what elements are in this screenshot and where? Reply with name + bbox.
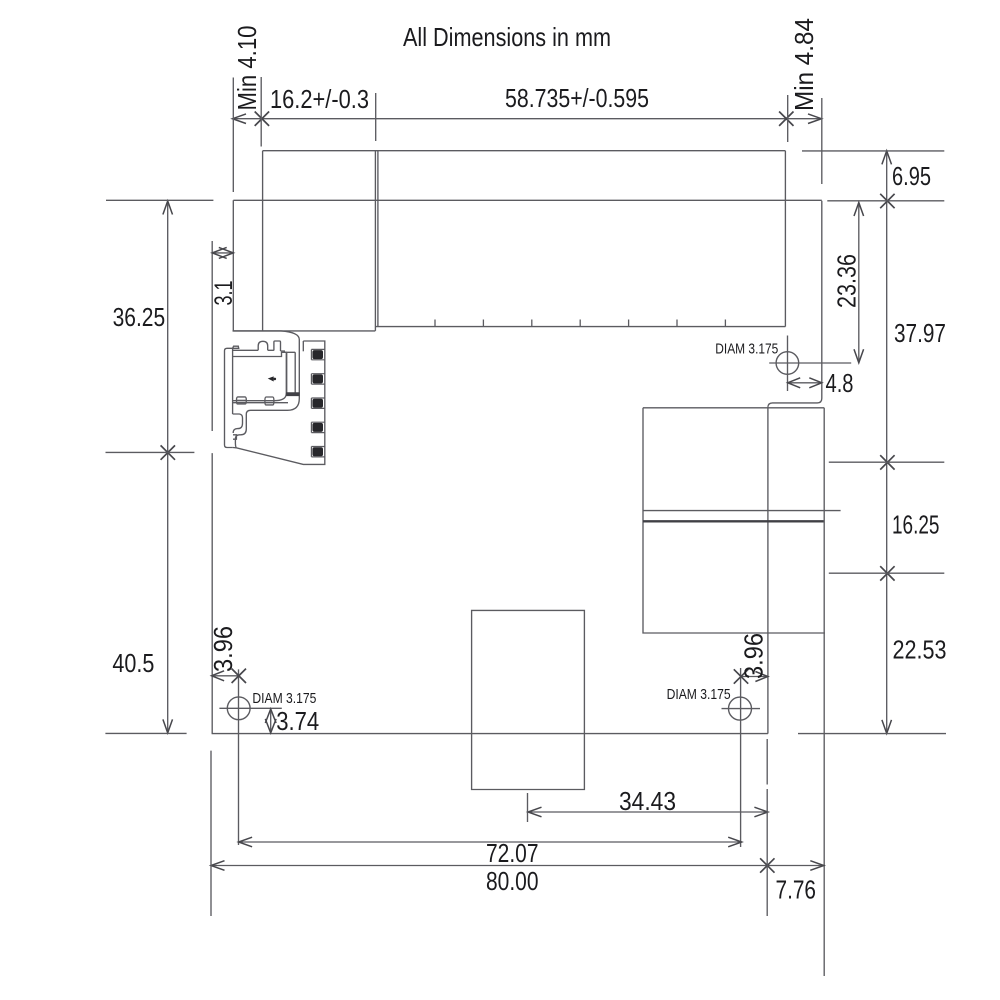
dim right X at 573.4 — [880, 566, 894, 580]
hole bottom right h centerline — [722, 708, 761, 710]
connector shell plate — [225, 348, 233, 447]
component right box outline — [643, 408, 825, 633]
hole top right h centerline — [769, 362, 851, 364]
svg-text:3.1: 3.1 — [210, 281, 238, 306]
connector bold bar — [287, 393, 299, 396]
dim 80.00 line — [211, 865, 824, 867]
svg-text:DIAM 3.175: DIAM 3.175 — [715, 342, 778, 358]
dim right vertical line — [886, 151, 888, 734]
dim 34.43 left arrow — [528, 807, 542, 817]
dim 3.74 bottom arrow — [265, 719, 276, 733]
svg-text:16.2+/-0.3: 16.2+/-0.3 — [270, 84, 369, 114]
ext line y=733.4 left — [105, 732, 186, 734]
board right edge lower — [767, 407, 769, 733]
connector hook inner — [233, 414, 243, 433]
svg-text:Min 4.10: Min 4.10 — [232, 26, 262, 111]
ext line y=200.8 right — [827, 200, 944, 202]
svg-text:3.74: 3.74 — [276, 706, 319, 736]
svg-text:All Dimensions in mm: All Dimensions in mm — [403, 22, 611, 52]
hole bottom right circle — [729, 697, 752, 720]
svg-text:22.53: 22.53 — [893, 635, 947, 665]
hole bottom left h centerline — [219, 707, 281, 709]
dim Min 4.84 right arrow — [808, 114, 822, 124]
ext line x=261.2 — [260, 77, 262, 147]
ext line y=452.4 left — [106, 451, 195, 453]
svg-text:3.96: 3.96 — [208, 626, 238, 672]
dim 72.07 right arrow — [728, 837, 742, 847]
svg-text:Min 4.84: Min 4.84 — [789, 18, 819, 111]
connector cavity outline — [233, 352, 287, 400]
board bottom edge — [212, 733, 768, 735]
svg-text:36.25: 36.25 — [113, 302, 166, 332]
ext line x=767.2 bottom b — [766, 789, 768, 916]
dim chain line top — [233, 118, 822, 120]
component right box thin internal line — [643, 510, 841, 512]
ext line y=733.6 right — [798, 733, 946, 735]
dim right X at 462.4 — [880, 455, 894, 469]
dim 6.95 top arrow — [882, 151, 892, 165]
svg-text:37.97: 37.97 — [894, 318, 946, 348]
ext line y=150.9 right — [802, 150, 944, 152]
ext line x=767.2 bottom a — [766, 739, 768, 785]
svg-text:DIAM 3.175: DIAM 3.175 — [667, 687, 731, 703]
connector cavity inner wall — [287, 352, 296, 393]
ext line y=573.2 right — [829, 572, 945, 574]
hole bottom right v centerline — [740, 668, 742, 847]
svg-text:4.8: 4.8 — [826, 368, 854, 398]
board top edge — [233, 199, 822, 201]
connector housing bump — [258, 341, 268, 350]
dim 3.74 top arrow — [265, 709, 276, 723]
connector latch mark — [269, 377, 273, 381]
dim 36.25 top arrow — [163, 201, 173, 215]
ext line x=375.7 — [375, 93, 377, 141]
dim Min 4.10 left arrow — [233, 114, 247, 124]
connector housing bottom edge — [233, 402, 288, 404]
svg-text:3.96: 3.96 — [739, 633, 769, 679]
dim 4.8 left arrow — [788, 378, 801, 388]
connector foot left — [237, 397, 247, 404]
ext line x=787.7 — [787, 95, 789, 142]
dim 4.8 line — [788, 382, 822, 384]
connector housing tab2 — [274, 341, 281, 351]
dim 3.1 left arrow — [212, 247, 227, 258]
module divider line b — [377, 151, 379, 327]
dim 23.36 line — [858, 203, 860, 363]
connector outer profile — [233, 331, 325, 465]
svg-text:23.36: 23.36 — [832, 254, 862, 308]
dim 80.00 left arrow — [211, 861, 225, 871]
svg-text:40.5: 40.5 — [112, 648, 154, 678]
ext line x=821.8 top — [821, 98, 823, 184]
dim 3.96 right arrow — [755, 672, 768, 682]
dim 34.43 right arrow — [754, 807, 768, 817]
dim left X at 452.6 — [161, 445, 175, 459]
dim tick X at 786.3 — [779, 112, 793, 126]
dim 4.8 right arrow — [809, 378, 822, 388]
connector latch mark dot — [274, 378, 277, 381]
ext line x=527.5 bottom — [527, 793, 529, 822]
dim 3.1 line — [212, 252, 233, 254]
dim 72.07 line — [239, 841, 742, 843]
module pin ticks — [434, 320, 436, 327]
module left edge — [262, 151, 264, 331]
svg-text:6.95: 6.95 — [892, 161, 931, 191]
dim 3.96 left X — [232, 669, 246, 683]
connector hook stub — [233, 435, 236, 439]
dim 3.96 right X — [734, 669, 748, 683]
board left edge mid — [211, 241, 213, 431]
connector pin strip left stub — [302, 341, 304, 351]
svg-text:58.735+/-0.595: 58.735+/-0.595 — [505, 83, 649, 113]
dim 34.43 line — [528, 811, 768, 813]
component right box long right edge — [823, 408, 825, 976]
connector housing top edge — [233, 349, 259, 351]
dim tick X at 261.9 — [255, 112, 269, 126]
svg-text:7.76: 7.76 — [776, 875, 817, 905]
board step edge y=330.9 — [233, 330, 375, 332]
dim 3.1 right arrow — [219, 247, 234, 258]
ext line x=233.3 top — [232, 78, 234, 193]
dim 3.96 left line — [212, 675, 239, 677]
dim 22.53 bottom arrow — [882, 720, 892, 734]
module divider line a — [374, 151, 376, 331]
dim left vertical line — [167, 201, 169, 733]
hole top right v centerline — [787, 336, 789, 392]
dim 40.5 bottom arrow — [163, 719, 173, 733]
module top edge — [263, 150, 786, 152]
connector housing right step — [281, 351, 287, 352]
connector plate top tab — [233, 346, 239, 348]
dim right X at 201 — [880, 194, 894, 208]
svg-text:34.43: 34.43 — [619, 786, 676, 816]
board right edge upper — [768, 201, 822, 408]
hole bottom left circle — [227, 697, 250, 720]
ext line x=211 bottom — [210, 751, 212, 916]
component right box bold internal line — [643, 520, 824, 522]
connector foot right — [265, 397, 274, 405]
connector plate bottom join — [233, 447, 236, 449]
dim 72.07 left arrow — [239, 837, 253, 847]
svg-text:72.07: 72.07 — [486, 838, 539, 868]
module bottom edge right part — [376, 326, 786, 328]
dim 3.74 line — [270, 709, 272, 733]
hole top right circle — [776, 352, 799, 375]
svg-text:DIAM 3.175: DIAM 3.175 — [252, 691, 316, 707]
connector housing top edge b — [268, 349, 274, 351]
dim 7.76 right arrow — [810, 861, 824, 871]
svg-text:16.25: 16.25 — [892, 510, 940, 540]
dim 80.00 right X — [760, 858, 774, 872]
dim 3.96 right line — [741, 676, 768, 678]
dim 23.36 bottom arrow — [854, 349, 864, 363]
ext line y=462.2 right — [829, 461, 945, 463]
board left edge lower — [211, 453, 213, 733]
ext line y=200.3 left — [106, 199, 213, 201]
board left edge upper — [232, 200, 234, 331]
module right edge — [784, 151, 786, 327]
bottom component box — [472, 610, 585, 789]
dim 3.96 left arrow — [212, 671, 225, 681]
connector pins — [311, 349, 324, 359]
hole bottom left v centerline — [238, 669, 240, 845]
svg-text:80.00: 80.00 — [486, 866, 539, 896]
dim 23.36 top arrow — [854, 203, 864, 217]
